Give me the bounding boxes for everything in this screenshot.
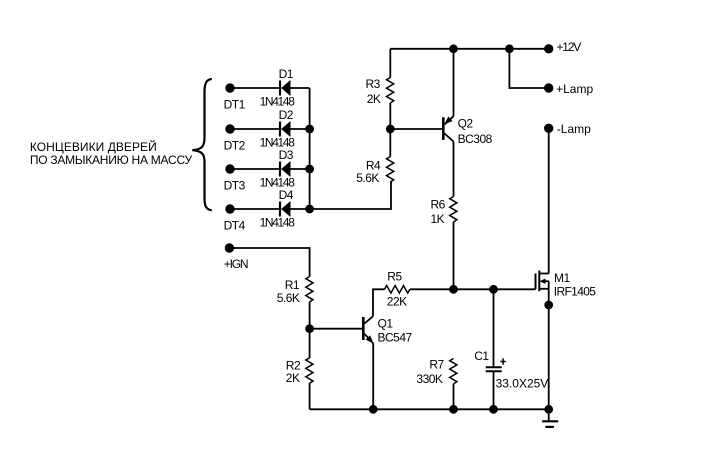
- wire Q1 base: [310, 328, 362, 330]
- junction: [370, 406, 377, 413]
- ground: [542, 409, 558, 427]
- wire: [373, 289, 385, 316]
- svg-text:-Lamp: -Lamp: [557, 122, 591, 136]
- svg-text:R5: R5: [387, 269, 402, 283]
- svg-text:C1: C1: [474, 349, 489, 363]
- polarity +: [500, 358, 505, 364]
- wire: [309, 383, 311, 409]
- node DT2: [226, 125, 234, 133]
- annotation: door switches text: [30, 139, 193, 167]
- junction node A: [450, 286, 457, 293]
- svg-text:D1: D1: [279, 67, 294, 81]
- svg-text:1N4148: 1N4148: [260, 216, 296, 230]
- diode D2: [279, 121, 291, 137]
- resistor R5: [385, 286, 410, 294]
- resistor R2: [306, 358, 313, 383]
- wire: [493, 289, 495, 367]
- svg-text:33.0X25V: 33.0X25V: [496, 376, 549, 390]
- wire: [230, 168, 279, 170]
- wire: [230, 87, 279, 89]
- svg-text:DT1: DT1: [224, 97, 246, 111]
- wire: [310, 182, 391, 209]
- svg-text:R6: R6: [431, 198, 446, 212]
- resistor R3: [387, 78, 394, 103]
- svg-text:DT3: DT3: [224, 178, 246, 192]
- svg-text:5.6K: 5.6K: [356, 171, 379, 185]
- svg-text:D2: D2: [279, 108, 294, 122]
- wire: [230, 128, 279, 130]
- diode D1: [279, 80, 291, 96]
- wire: [453, 384, 455, 409]
- mosfet M1: [536, 271, 549, 292]
- svg-text:1K: 1K: [431, 212, 445, 226]
- svg-text:BC308: BC308: [458, 132, 493, 146]
- brace: [192, 79, 212, 210]
- wire: [493, 371, 495, 409]
- svg-text:IRF1405: IRF1405: [554, 285, 596, 299]
- wire Q2 collector: [453, 142, 455, 197]
- svg-text:1N4148: 1N4148: [260, 95, 296, 109]
- svg-text:330K: 330K: [416, 372, 443, 386]
- wire: [309, 302, 311, 358]
- node DT1: [226, 84, 234, 92]
- diode D4: [279, 201, 291, 217]
- svg-text:BC547: BC547: [378, 330, 413, 344]
- junction: [450, 45, 457, 52]
- junction: [306, 126, 313, 133]
- transistor Q1: [362, 316, 374, 343]
- wire Q2 emitter: [453, 49, 455, 116]
- resistor R4: [387, 157, 394, 182]
- wire: [291, 168, 310, 170]
- svg-text:R1: R1: [285, 278, 300, 292]
- svg-text:+IGN: +IGN: [224, 257, 248, 271]
- svg-text:ПО ЗАМЫКАНИЮ НА МАССУ: ПО ЗАМЫКАНИЮ НА МАССУ: [30, 153, 193, 167]
- resistor R7: [450, 359, 457, 384]
- junction: [306, 325, 313, 332]
- svg-text:5.6K: 5.6K: [277, 291, 300, 305]
- wire top rail: [390, 48, 548, 50]
- svg-text:+12V: +12V: [557, 40, 582, 54]
- wire: [229, 248, 309, 277]
- svg-text:D3: D3: [279, 148, 294, 162]
- svg-text:M1: M1: [554, 271, 570, 285]
- junction: [387, 126, 394, 133]
- node DT4: [226, 205, 234, 213]
- wire: [389, 49, 391, 78]
- wire: [389, 103, 391, 157]
- junction: [306, 206, 313, 213]
- wire: [230, 208, 279, 210]
- node +IGN: [226, 244, 234, 252]
- wire: [291, 87, 310, 89]
- svg-text:22K: 22K: [387, 294, 407, 308]
- transistor Q2: [442, 116, 454, 141]
- svg-text:R3: R3: [366, 77, 381, 91]
- resistor R6: [450, 197, 457, 222]
- wire: [291, 208, 310, 210]
- junction: [506, 45, 513, 52]
- svg-text:DT4: DT4: [224, 218, 246, 232]
- svg-text:DT2: DT2: [224, 138, 246, 152]
- node -Lamp: [545, 125, 553, 133]
- wire M1 drain: [548, 128, 550, 273]
- wire: [453, 222, 455, 289]
- resistor R1: [306, 277, 313, 302]
- svg-text:R7: R7: [429, 357, 444, 371]
- node DT3: [226, 165, 234, 173]
- junction: [545, 302, 552, 309]
- node +Lamp: [545, 84, 553, 92]
- node +12V: [545, 45, 553, 53]
- wire: [291, 128, 310, 130]
- wire diode bus: [309, 88, 311, 209]
- svg-text:Q2: Q2: [458, 117, 474, 131]
- wire Q2 base: [390, 128, 442, 130]
- capacitor C1: [486, 367, 502, 371]
- svg-text:2K: 2K: [286, 371, 300, 385]
- svg-text:2K: 2K: [367, 92, 381, 106]
- junction: [490, 286, 497, 293]
- wire: [410, 288, 454, 290]
- wire +Lamp branch: [509, 49, 548, 88]
- wire Q1 emitter: [372, 343, 374, 409]
- svg-text:D4: D4: [279, 188, 294, 202]
- wire M1 source: [548, 289, 550, 410]
- junction: [306, 166, 313, 173]
- svg-text:+Lamp: +Lamp: [556, 82, 593, 96]
- wire bottom rail: [310, 408, 549, 410]
- svg-text:КОНЦЕВИКИ ДВЕРЕЙ: КОНЦЕВИКИ ДВЕРЕЙ: [30, 139, 157, 154]
- diode D3: [279, 161, 291, 177]
- junction: [545, 406, 552, 413]
- junction: [490, 406, 497, 413]
- junction: [450, 406, 457, 413]
- svg-text:Q1: Q1: [378, 316, 394, 330]
- wire: [454, 288, 536, 290]
